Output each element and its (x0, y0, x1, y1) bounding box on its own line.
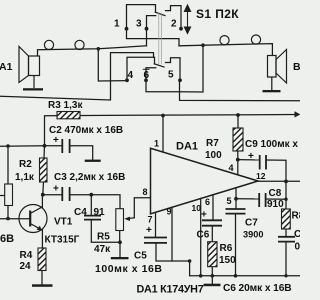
svg-text:91: 91 (94, 207, 106, 218)
svg-text:12: 12 (256, 171, 266, 181)
ground speaker B (263, 90, 281, 92)
ground C2 (85, 160, 101, 162)
wire R6 to rail (211, 267, 213, 276)
wire pin5 node (235, 188, 237, 209)
wire C7 to rail (235, 214, 237, 276)
svg-text:910: 910 (267, 199, 284, 210)
wire C10 to rail (285, 242, 287, 276)
wire R8 top leg (285, 181, 287, 209)
svg-text:R2: R2 (19, 159, 32, 170)
resistor R5 47k trimmer (116, 209, 124, 231)
wire C4 bottom to R5 bottom (91, 220, 120, 243)
svg-text:DA1: DA1 (176, 141, 198, 153)
svg-text:5: 5 (227, 196, 232, 206)
svg-text:1: 1 (154, 139, 159, 149)
capacitor C4 91 (84, 216, 101, 220)
svg-text:6В: 6В (0, 233, 14, 245)
resistor R3 1,3k (57, 112, 80, 119)
svg-text:47к: 47к (94, 244, 111, 255)
wire C9 right leg (266, 160, 286, 181)
wire ground bus left (0, 53, 154, 100)
svg-text:3: 3 (136, 19, 142, 30)
wire R1 left stub (0, 195, 5, 197)
svg-text:9: 9 (167, 207, 172, 217)
wire pin9 (171, 207, 173, 261)
wire emitter to R4 (41, 229, 43, 248)
switch S1 actuator arrow (184, 5, 190, 34)
wire BA1 to jack line (38, 46, 147, 56)
svg-text:R8: R8 (292, 211, 301, 222)
svg-text:DA1 К174УН7: DA1 К174УН7 (137, 284, 204, 296)
svg-text:5: 5 (168, 70, 174, 81)
svg-text:VT1: VT1 (54, 217, 73, 228)
svg-text:150: 150 (219, 255, 236, 266)
ground R4 (32, 284, 53, 287)
svg-text:+: + (146, 225, 152, 236)
wire C2 net (0, 145, 62, 148)
svg-text:+: + (201, 210, 207, 221)
wire R2 leads (43, 146, 46, 158)
switch S1 section1 contact pin2 (166, 6, 182, 29)
resistor R8 (282, 209, 291, 229)
svg-text:R7: R7 (206, 138, 219, 149)
svg-text:C5: C5 (134, 251, 147, 262)
svg-text:2: 2 (171, 19, 177, 30)
jack socket XS3 (220, 36, 229, 45)
wire C5 bottom (156, 243, 190, 276)
switch S1 section1 lever (155, 12, 165, 15)
svg-text:6: 6 (144, 70, 150, 81)
wire C3 node (43, 194, 62, 196)
jack socket XS2 (75, 40, 84, 49)
resistor R4 24 (38, 248, 46, 271)
wire pin1 of DA1 (162, 116, 164, 153)
supply bus with R3 (45, 115, 297, 146)
svg-text:1,1к: 1,1к (15, 172, 35, 183)
switch S1 section1 contact pin1 (127, 5, 156, 29)
capacitor C5 100mk (144, 238, 167, 243)
svg-text:24: 24 (20, 261, 32, 272)
svg-text:100мк x 16В: 100мк x 16В (95, 263, 163, 275)
svg-text:S1 П2К: S1 П2К (196, 7, 239, 21)
svg-text:100: 100 (205, 150, 222, 161)
svg-text:4: 4 (229, 163, 234, 173)
svg-text:+: + (53, 184, 59, 195)
speaker BA1 (19, 47, 40, 89)
transistor VT1 KT315G (19, 205, 47, 233)
wire pin8 to R5 wiper (134, 198, 150, 218)
op-amp DA1 K174UN7 (151, 148, 259, 214)
svg-text:4: 4 (128, 70, 134, 81)
R5 wiper arrow (127, 217, 134, 220)
svg-text:C7: C7 (245, 218, 258, 229)
jack socket XS4 (251, 35, 260, 44)
wire pin5 to C8 (236, 198, 259, 200)
svg-text:0,: 0, (295, 242, 301, 253)
svg-text:R3 1,3к: R3 1,3к (48, 100, 83, 111)
wire right jack junction down (180, 45, 204, 92)
svg-text:+: + (53, 135, 59, 146)
wire collector (41, 195, 43, 208)
capacitor C6 (202, 220, 222, 225)
wire R5 node to ground (119, 242, 121, 257)
wire pin10 (200, 199, 202, 276)
switch S1 section2 lever (154, 64, 164, 67)
wire R5 bottom (119, 231, 121, 243)
jack socket XS1 (44, 40, 53, 49)
wire C3 right to C4 and R5 (70, 195, 120, 209)
wire speaker B stem (271, 77, 273, 90)
wire R1 bottom to base node (7, 206, 9, 219)
switch S1 section2 common pin6 (146, 68, 156, 81)
wire to ground bus right (180, 92, 301, 101)
speaker B (right) (268, 50, 287, 84)
wire R7 node to C9 (238, 159, 260, 161)
resistor R1 (5, 184, 13, 206)
switch S1 section1 common pin3 (147, 16, 156, 29)
wire R1 top lead (7, 146, 9, 184)
wire base (0, 218, 30, 220)
svg-text:10: 10 (192, 203, 202, 213)
supply bus arrow (295, 111, 301, 117)
wire output pin12 (258, 180, 300, 182)
wire R8 to C10 (285, 229, 287, 237)
wire C2 to ground (70, 146, 93, 160)
svg-text:C6: C6 (197, 230, 210, 241)
svg-text:C3 2,2мк x 16В: C3 2,2мк x 16В (54, 172, 125, 183)
wire pin7 to C5 (155, 212, 157, 237)
switch S1 section2 contact pin4 (127, 57, 155, 80)
svg-text:R4: R4 (20, 250, 33, 261)
resistor R7 100 (233, 128, 243, 151)
svg-text:1: 1 (114, 19, 120, 30)
wire jack-line drop to switch pin4 (98, 49, 127, 81)
capacitor C3 2,2mk (62, 187, 69, 201)
wire R7 top (237, 115, 239, 128)
wire R7 bottom to pin4 (237, 151, 239, 175)
svg-text:+: + (248, 151, 254, 162)
svg-text:С6 20мк x 16В: С6 20мк x 16В (223, 283, 292, 294)
capacitor C2 470mk (62, 139, 69, 153)
ground R5 (111, 257, 129, 259)
ground BA1 (23, 88, 43, 90)
switch S1 section2 contact pin5 (166, 58, 181, 81)
svg-text:6: 6 (205, 197, 210, 207)
capacitor C8 910 (259, 193, 265, 207)
wire C8 right leg (266, 198, 286, 200)
wire C4 top lead (90, 195, 92, 216)
wire rail ground stem (211, 276, 213, 284)
svg-text:ВА1: ВА1 (0, 61, 13, 73)
resistor R6 150 (208, 242, 217, 267)
capacitor C10 (278, 237, 295, 242)
bottom rail (190, 275, 300, 277)
wire pin6 to C6 (212, 195, 214, 220)
svg-text:C9 100мк x: C9 100мк x (245, 139, 298, 150)
svg-text:3900: 3900 (243, 230, 263, 240)
svg-text:R6: R6 (220, 243, 233, 254)
svg-text:КТ315Г: КТ315Г (45, 235, 80, 246)
svg-text:C4: C4 (74, 207, 87, 218)
svg-text:C8: C8 (269, 188, 282, 199)
wire pin6 pin5 link (146, 80, 180, 92)
svg-text:C2 470мк x 16В: C2 470мк x 16В (49, 125, 123, 136)
wire pin1 to right jack line (127, 29, 180, 46)
resistor R2 1,1k (40, 158, 48, 182)
svg-text:7: 7 (148, 215, 153, 225)
svg-text:R5: R5 (97, 232, 110, 243)
switch S1 mechanical link (159, 13, 162, 64)
wire C6 to R6 (211, 226, 213, 242)
svg-text:С1: С1 (294, 229, 300, 240)
capacitor C9 100mk (260, 155, 266, 170)
capacitor C7 3900 (226, 209, 246, 214)
wire right jack line (179, 44, 272, 56)
wire R4 to ground (41, 271, 43, 285)
ground bottom rail (204, 284, 221, 287)
wire pin3 down (146, 29, 148, 46)
svg-text:ВА2: ВА2 (293, 61, 300, 73)
svg-text:8: 8 (143, 187, 148, 197)
